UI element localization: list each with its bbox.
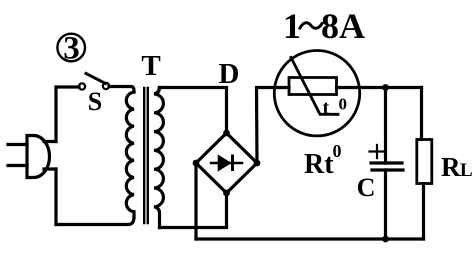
wire bridge right to top rail bbox=[257, 88, 290, 164]
bridge rectifier D diamond bbox=[196, 133, 257, 193]
resistor RL body bbox=[417, 140, 432, 184]
wire bridge left down bbox=[194, 163, 197, 239]
svg-text:3: 3 bbox=[63, 31, 80, 67]
svg-text:T: T bbox=[141, 50, 160, 82]
svg-text:t: t bbox=[323, 97, 330, 119]
node bridge left bbox=[193, 160, 200, 167]
svg-text:8A: 8A bbox=[321, 6, 365, 46]
node bridge right bbox=[254, 160, 261, 167]
wire top rail corner to RL bbox=[420, 88, 423, 140]
node bridge top bbox=[223, 130, 230, 137]
capacitor C branch top wire bbox=[384, 88, 387, 164]
transformer T primary winding bbox=[126, 92, 134, 217]
capacitor bottom wire bbox=[384, 170, 387, 239]
node bottom cap junction bbox=[382, 236, 389, 243]
label circled 3 bbox=[57, 31, 85, 67]
thermistor resistor body bbox=[289, 78, 337, 95]
wire switch to transformer bbox=[109, 87, 134, 93]
node bridge bottom bbox=[223, 190, 230, 197]
bridge diode symbol bbox=[211, 156, 242, 170]
wire RL bottom bbox=[422, 184, 425, 240]
capacitor C plates bbox=[371, 163, 403, 170]
wire secondary bottom to bridge bbox=[160, 193, 227, 228]
svg-text:L: L bbox=[460, 160, 473, 181]
wire left rail lower bbox=[54, 169, 57, 225]
wire left rail upper bbox=[56, 87, 79, 142]
svg-text:1: 1 bbox=[283, 6, 301, 46]
transformer T core bbox=[144, 88, 148, 223]
svg-text:R: R bbox=[441, 152, 461, 182]
transformer T secondary winding bbox=[154, 88, 163, 228]
svg-text:C: C bbox=[357, 173, 376, 202]
capacitor polarity + bbox=[370, 145, 385, 158]
thermistor diagonal with foot bbox=[291, 58, 338, 115]
node top cap junction bbox=[382, 84, 389, 91]
svg-text:0: 0 bbox=[333, 141, 342, 161]
svg-text:0: 0 bbox=[339, 95, 348, 114]
ammeter / thermistor circle bbox=[274, 50, 359, 135]
wire bottom primary bbox=[56, 217, 134, 225]
svg-text:S: S bbox=[88, 87, 102, 116]
plug P (AC mains plug) bbox=[8, 136, 56, 178]
switch S bbox=[79, 74, 109, 117]
wire circle to cap node bbox=[337, 86, 422, 89]
wire bottom rail bbox=[196, 237, 424, 240]
wire secondary top to bridge bbox=[160, 88, 227, 134]
svg-text:Rt: Rt bbox=[304, 149, 334, 180]
svg-text:D: D bbox=[219, 58, 240, 90]
